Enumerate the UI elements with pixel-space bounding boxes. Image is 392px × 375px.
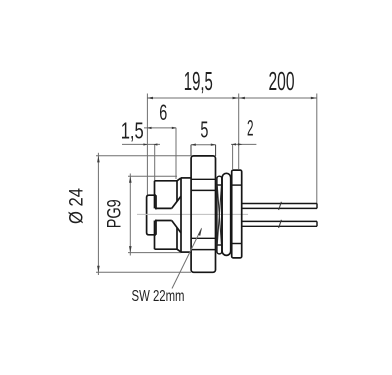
dimension D24 vertical line	[97, 153, 99, 275]
svg-text:PG9: PG9	[105, 199, 126, 228]
dimension 1,5 line	[122, 143, 160, 145]
wire 2 end cap	[316, 221, 318, 226]
arrow 2 left	[231, 143, 236, 145]
PG9 section left edge	[180, 178, 182, 252]
spring washer outline	[217, 176, 222, 254]
SW 22mm leader arrowhead	[198, 228, 202, 236]
arrow PG9 top	[129, 176, 132, 183]
arrow D24 bottom	[97, 266, 100, 273]
arrow 200 left	[239, 97, 245, 100]
PG9 section bottom edge	[181, 251, 191, 253]
connector front step	[147, 195, 156, 235]
extension line x=215.6	[215, 145, 217, 156]
wire 2 break mark	[279, 220, 282, 228]
extension line x=232.6	[232, 144, 234, 169]
extension line x=176	[175, 128, 177, 179]
dimension 6 line	[144, 127, 176, 129]
extension line bottom y=252.6	[128, 252, 181, 254]
extension line at front face x=147.4	[146, 94, 148, 196]
funnel cavity white fill	[154, 198, 181, 232]
arrow 19,5 right	[233, 97, 239, 100]
flange D24 body	[191, 156, 215, 272]
svg-text:2: 2	[247, 115, 254, 140]
funnel top line	[155, 207, 172, 209]
arrow PG9 bottom	[129, 246, 132, 253]
dimension PG9 vertical line	[129, 174, 131, 256]
svg-text:19,5: 19,5	[184, 68, 213, 96]
spring washer diagonal 2	[217, 185, 221, 245]
extension line at mounting face x=238.7	[238, 94, 240, 170]
arrow 2 right	[238, 143, 243, 145]
flange internal line 4	[191, 249, 215, 251]
extension line top y=155.7	[96, 155, 191, 157]
arrow 5 left	[191, 144, 196, 146]
centerline	[137, 213, 248, 215]
flange internal line 1	[191, 178, 215, 180]
extension line x=191	[190, 145, 192, 156]
chamfer bottom	[177, 249, 181, 252]
arrow 6 right	[172, 127, 177, 129]
svg-text:Ø 24: Ø 24	[67, 188, 88, 224]
funnel top slant	[172, 196, 181, 208]
hex nut body	[232, 170, 242, 258]
hex nut chamfer line bottom	[232, 243, 242, 245]
funnel bottom slant	[172, 221, 181, 233]
PG9 section top edge	[181, 177, 191, 179]
flange internal line 3	[191, 237, 215, 239]
extension line top y=176.3	[128, 175, 177, 177]
svg-text:SW 22mm: SW 22mm	[132, 288, 185, 305]
dimension 19,5 / 200 main line	[147, 97, 317, 99]
arrow 19,5 left	[147, 97, 153, 100]
arrow 200 right	[311, 97, 317, 100]
wire 1 break mark	[279, 202, 282, 210]
connector main cylinder right edge lower	[176, 227, 178, 249]
wire 2 bottom line	[242, 225, 317, 227]
wire 2 top line	[242, 220, 317, 222]
connector main cylinder left edge lower	[154, 221, 156, 250]
arrow 1,5 left	[143, 143, 147, 145]
arrow 5 right	[211, 144, 216, 146]
extension line x=154.7	[154, 144, 156, 181]
arrow D24 top	[97, 156, 100, 163]
funnel bottom line	[155, 220, 172, 222]
wire 1 bottom line	[242, 207, 317, 209]
extension line at wire end x=316.8	[316, 94, 318, 204]
extension line bottom y=272.3	[96, 271, 191, 273]
dimension 5 line	[191, 144, 216, 146]
connector main cylinder right edge upper	[176, 181, 178, 202]
spring washer cap bottom	[217, 244, 222, 246]
connector main cylinder left edge upper	[154, 181, 156, 209]
wire 1 end cap	[316, 204, 318, 209]
connector main cylinder top edge	[155, 180, 178, 182]
SW 22mm leader line	[172, 229, 202, 289]
flange internal line 2	[191, 189, 215, 191]
chamfer top	[177, 178, 181, 181]
hex nut chamfer line top	[232, 184, 242, 186]
dimension 2 line	[231, 143, 256, 145]
svg-text:1,5: 1,5	[121, 117, 144, 143]
arrow 1,5 right	[153, 143, 157, 145]
svg-text:5: 5	[200, 117, 208, 143]
wire 1 top line	[242, 203, 317, 205]
spring washer cap top	[217, 184, 222, 186]
arrow 6 left	[147, 127, 152, 129]
svg-text:6: 6	[159, 100, 167, 125]
svg-text:200: 200	[269, 68, 295, 96]
connector main cylinder bottom edge	[155, 248, 178, 250]
flat washer stadium	[222, 173, 231, 255]
spring washer diagonal 1	[217, 185, 221, 245]
